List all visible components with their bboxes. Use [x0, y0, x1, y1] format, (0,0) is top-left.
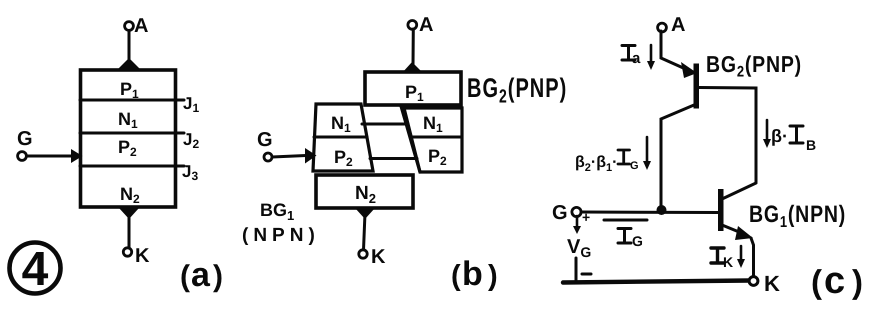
BG2 emitter wire from A: [661, 31, 690, 71]
BG2 emitter arrowhead: [681, 62, 697, 78]
junction blob top (a): [118, 58, 140, 69]
junction dot gate node: [657, 205, 667, 215]
bottom rail wire: [563, 281, 750, 283]
svg-text:4: 4: [22, 243, 49, 296]
svg-text:β·: β·: [771, 126, 788, 146]
terminal K (a): [123, 245, 150, 267]
terminal A (a): [125, 15, 149, 37]
BG2 collector wire down to gate node: [661, 105, 694, 207]
svg-text:B: B: [806, 137, 816, 153]
svg-text:K: K: [371, 246, 386, 268]
gate wire to BG1 base: [581, 211, 718, 215]
terminal K (b): [359, 246, 386, 268]
BG1 emitter wire: [722, 225, 744, 234]
svg-text:A: A: [134, 15, 148, 37]
terminal G (c): [552, 202, 590, 225]
shared-layer connector upper (b): [362, 123, 408, 126]
terminal G (a): [17, 128, 33, 160]
svg-text:BG2(PNP): BG2(PNP): [467, 74, 567, 106]
right half diagonal from P1 (b): [401, 106, 420, 172]
transistor BG1 base bar: [718, 189, 724, 231]
gate arrowhead (a): [71, 149, 83, 163]
svg-text:K: K: [723, 254, 733, 270]
BG1 collector wire: [722, 183, 756, 199]
BG2 base wire to BG1 collector: [699, 88, 756, 183]
svg-text:(b): (b): [451, 255, 498, 293]
junction J3 divider: [80, 165, 184, 168]
svg-text:BG2(PNP): BG2(PNP): [706, 52, 802, 80]
junction blob bottom (a): [119, 208, 139, 219]
BG1 emitter arrowhead: [735, 226, 753, 240]
P1 box (b): [365, 72, 461, 105]
transistor BG2 base bar: [694, 64, 700, 109]
label beta·IB with down arrow: [763, 120, 816, 153]
svg-text:a: a: [632, 50, 641, 67]
label B2·B1·IG with down arrow: [575, 137, 651, 174]
wire A to box (a): [128, 31, 131, 64]
VG source branch: [567, 216, 591, 281]
junction blob bottom N2 (b): [355, 208, 375, 219]
right half stack outline (b): [404, 108, 462, 172]
svg-text:G: G: [632, 233, 643, 249]
junction J2 divider: [80, 132, 184, 135]
junction J1 divider: [80, 99, 184, 102]
terminal A (b): [408, 14, 434, 36]
terminal A (c): [658, 14, 686, 36]
shared-layer connector lower (b): [370, 157, 417, 160]
svg-text:(NPN): (NPN): [242, 225, 320, 246]
svg-text:A: A: [419, 14, 433, 36]
wire A to P1 box (b): [412, 29, 415, 66]
figure number 4 circled: [10, 243, 61, 297]
terminal G (b): [257, 129, 273, 161]
svg-text:K: K: [764, 271, 780, 296]
right half N1/P2 divider (b): [412, 136, 462, 139]
svg-text:G: G: [552, 202, 568, 224]
BG1 emitter wire to K: [751, 238, 754, 277]
svg-text:G: G: [630, 160, 639, 172]
four-layer box (a): [81, 70, 176, 207]
N2 box (b): [316, 175, 413, 208]
svg-text:BG1(NPN): BG1(NPN): [749, 201, 846, 230]
label IG with arrow: [604, 220, 647, 249]
left half N1/P2 divider (b): [314, 136, 367, 139]
svg-text:(c): (c): [811, 260, 863, 302]
terminal K (c): [749, 271, 780, 296]
label Ia with down arrow: [622, 45, 655, 70]
junction blob top P1 (b): [402, 62, 423, 73]
wire N2 to K (b): [364, 213, 366, 250]
svg-text:G: G: [257, 129, 273, 151]
svg-text:(a): (a): [180, 256, 223, 294]
gate wire (a): [27, 155, 72, 158]
svg-text:G: G: [17, 128, 33, 150]
gate arrowhead (b): [305, 148, 317, 164]
left half stack outline (b): [313, 104, 373, 171]
label IK with down arrow: [711, 246, 745, 270]
svg-text:A: A: [671, 14, 685, 36]
wire box to K (a): [128, 213, 131, 248]
gate wire (b): [272, 156, 306, 158]
svg-text:K: K: [135, 245, 150, 267]
